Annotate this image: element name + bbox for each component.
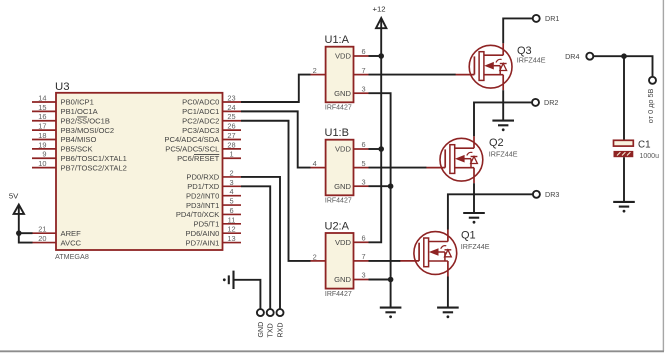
svg-text:+12: +12 bbox=[373, 5, 386, 14]
svg-text:1000u: 1000u bbox=[640, 153, 660, 160]
svg-text:IRFZ44E: IRFZ44E bbox=[489, 149, 518, 158]
svg-text:AREF: AREF bbox=[61, 229, 82, 238]
svg-text:10: 10 bbox=[38, 159, 46, 168]
svg-text:11: 11 bbox=[228, 215, 236, 224]
svg-text:PB5/SCK: PB5/SCK bbox=[61, 145, 93, 154]
svg-text:ATMEGA8: ATMEGA8 bbox=[55, 252, 89, 261]
svg-text:PB7/TOSC2/XTAL2: PB7/TOSC2/XTAL2 bbox=[61, 163, 127, 172]
svg-text:DR3: DR3 bbox=[545, 190, 559, 199]
svg-text:9: 9 bbox=[42, 150, 46, 159]
svg-text:13: 13 bbox=[227, 234, 235, 243]
svg-text:2: 2 bbox=[313, 66, 317, 75]
svg-text:PB1/OC1A: PB1/OC1A bbox=[61, 107, 99, 116]
svg-text:PD3/INT1: PD3/INT1 bbox=[186, 201, 219, 210]
svg-text:6: 6 bbox=[229, 206, 233, 215]
svg-text:16: 16 bbox=[38, 112, 46, 121]
svg-text:от 0 до 5В: от 0 до 5В bbox=[646, 88, 655, 123]
svg-text:C1: C1 bbox=[638, 139, 651, 150]
svg-text:DR2: DR2 bbox=[544, 98, 558, 107]
svg-text:6: 6 bbox=[362, 140, 366, 149]
svg-text:DR4: DR4 bbox=[565, 52, 579, 61]
svg-text:4: 4 bbox=[229, 187, 233, 196]
svg-text:GND: GND bbox=[334, 275, 351, 284]
svg-text:23: 23 bbox=[227, 94, 235, 103]
svg-text:4: 4 bbox=[313, 159, 317, 168]
svg-text:PD6/AIN0: PD6/AIN0 bbox=[186, 229, 220, 238]
svg-text:PC2/ADC2: PC2/ADC2 bbox=[182, 116, 219, 125]
svg-text:PD5/T1: PD5/T1 bbox=[194, 220, 220, 229]
svg-text:U2:A: U2:A bbox=[325, 220, 350, 232]
svg-text:PC3/ADC3: PC3/ADC3 bbox=[182, 126, 219, 135]
svg-text:5V: 5V bbox=[9, 191, 19, 200]
svg-text:AVCC: AVCC bbox=[61, 238, 82, 247]
svg-text:PC6/RESET: PC6/RESET bbox=[177, 154, 220, 163]
svg-text:PB2/SS/OC1B: PB2/SS/OC1B bbox=[61, 116, 110, 125]
svg-text:1: 1 bbox=[229, 150, 233, 159]
svg-text:RXD: RXD bbox=[276, 323, 284, 338]
svg-text:17: 17 bbox=[38, 122, 46, 131]
svg-text:IRF4427: IRF4427 bbox=[325, 105, 352, 112]
svg-text:U1:A: U1:A bbox=[325, 34, 350, 46]
svg-text:14: 14 bbox=[38, 94, 46, 103]
svg-text:3: 3 bbox=[362, 84, 366, 93]
svg-text:IRF4427: IRF4427 bbox=[325, 198, 352, 205]
svg-text:PB4/MISO: PB4/MISO bbox=[61, 135, 97, 144]
svg-text:3: 3 bbox=[362, 271, 366, 280]
svg-text:3: 3 bbox=[362, 177, 366, 186]
svg-text:PD0/RXD: PD0/RXD bbox=[186, 173, 219, 182]
svg-text:19: 19 bbox=[38, 140, 46, 149]
svg-text:PD7/AIN1: PD7/AIN1 bbox=[186, 238, 220, 247]
svg-text:VDD: VDD bbox=[335, 145, 352, 154]
svg-text:PC4/ADC4/SDA: PC4/ADC4/SDA bbox=[164, 135, 220, 144]
svg-text:VDD: VDD bbox=[335, 52, 352, 61]
svg-text:15: 15 bbox=[38, 103, 46, 112]
svg-text:5: 5 bbox=[229, 197, 233, 206]
svg-text:21: 21 bbox=[38, 225, 46, 234]
svg-text:18: 18 bbox=[38, 131, 46, 140]
svg-text:IRF4427: IRF4427 bbox=[325, 291, 352, 298]
svg-text:26: 26 bbox=[227, 122, 235, 131]
svg-text:24: 24 bbox=[227, 103, 235, 112]
svg-text:5: 5 bbox=[362, 159, 366, 168]
svg-text:3: 3 bbox=[229, 178, 233, 187]
svg-text:PD2/INT0: PD2/INT0 bbox=[186, 191, 219, 200]
svg-text:U3: U3 bbox=[55, 81, 70, 93]
svg-text:Q2: Q2 bbox=[489, 137, 504, 149]
svg-text:IRFZ44E: IRFZ44E bbox=[517, 55, 546, 64]
svg-text:20: 20 bbox=[38, 234, 46, 243]
svg-text:TXD: TXD bbox=[267, 323, 275, 337]
svg-text:PD1/TXD: PD1/TXD bbox=[187, 182, 220, 191]
svg-text:VDD: VDD bbox=[335, 238, 352, 247]
svg-text:7: 7 bbox=[362, 252, 366, 261]
svg-text:12: 12 bbox=[227, 225, 235, 234]
svg-text:25: 25 bbox=[227, 112, 235, 121]
svg-text:6: 6 bbox=[362, 47, 366, 56]
svg-text:PB3/MOSI/OC2: PB3/MOSI/OC2 bbox=[61, 126, 115, 135]
svg-text:PC0/ADC0: PC0/ADC0 bbox=[182, 98, 219, 107]
svg-text:PD4/T0/XCK: PD4/T0/XCK bbox=[176, 210, 219, 219]
svg-text:7: 7 bbox=[362, 66, 366, 75]
svg-text:PC5/ADC5/SCL: PC5/ADC5/SCL bbox=[165, 145, 219, 154]
svg-text:PB6/TOSC1/XTAL1: PB6/TOSC1/XTAL1 bbox=[61, 154, 127, 163]
svg-text:PB0/ICP1: PB0/ICP1 bbox=[61, 98, 94, 107]
svg-text:2: 2 bbox=[229, 168, 233, 177]
svg-text:IRFZ44E: IRFZ44E bbox=[461, 242, 490, 251]
svg-text:GND: GND bbox=[334, 182, 351, 191]
svg-text:27: 27 bbox=[227, 131, 235, 140]
svg-text:GND: GND bbox=[334, 89, 351, 98]
svg-text:PC1/ADC1: PC1/ADC1 bbox=[182, 107, 219, 116]
svg-text:U1:B: U1:B bbox=[325, 127, 349, 139]
svg-text:6: 6 bbox=[362, 234, 366, 243]
svg-text:GND: GND bbox=[257, 322, 265, 338]
svg-text:28: 28 bbox=[227, 140, 235, 149]
svg-text:2: 2 bbox=[313, 252, 317, 261]
svg-text:DR1: DR1 bbox=[545, 14, 559, 23]
svg-text:Q1: Q1 bbox=[461, 230, 476, 242]
